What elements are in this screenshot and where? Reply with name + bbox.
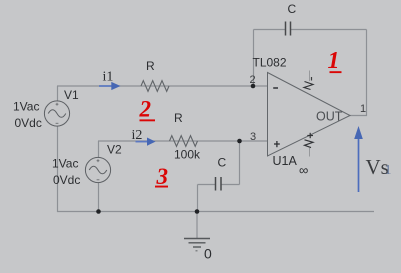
label TL082: [253, 56, 287, 70]
op-amp inverting input minus sign: [273, 87, 278, 89]
op-amp U1A triangle: [268, 73, 351, 157]
label C (feedback capacitor): [288, 2, 297, 16]
node label 2 (red): [139, 97, 156, 122]
svg-text:i2: i2: [132, 128, 143, 143]
svg-text:V2: V2: [107, 143, 122, 157]
junction node V2 bottom on ground rail: [96, 209, 101, 214]
value label 100k: [174, 148, 201, 162]
resistor R (top): [141, 81, 169, 92]
capacitor C1 (feedback) plates: [286, 22, 291, 36]
wire V2 bottom lead: [98, 183, 100, 212]
value label 1Vac (V1): [13, 100, 39, 114]
svg-text:OUT: OUT: [316, 110, 343, 124]
op-amp V- power pin: [305, 133, 314, 157]
current arrow i1: [99, 82, 121, 90]
pin number 3: [250, 131, 256, 143]
svg-text:R: R: [174, 111, 183, 125]
pin number 2: [250, 74, 256, 86]
wire feedback top right segment: [291, 29, 367, 31]
resistor R 100k (bottom): [170, 136, 198, 147]
svg-text:C: C: [218, 156, 227, 170]
wire C2 riser from pin 3 node: [239, 141, 241, 185]
current arrow i2: [136, 138, 156, 146]
value label 0Vdc (V1): [15, 116, 42, 130]
svg-text:1: 1: [328, 48, 340, 74]
label C (bottom capacitor): [218, 156, 227, 170]
svg-text:3: 3: [250, 131, 256, 143]
label OUT: [316, 110, 343, 124]
label i1: [103, 70, 114, 85]
svg-text:2: 2: [139, 97, 152, 122]
svg-text:∞: ∞: [299, 163, 308, 178]
label Vs1: [366, 155, 392, 179]
svg-text:1Vac: 1Vac: [13, 100, 39, 114]
node label 1 (red): [328, 48, 342, 74]
svg-text:100k: 100k: [174, 148, 201, 162]
svg-text:1: 1: [360, 103, 366, 115]
svg-text:V1: V1: [64, 88, 79, 102]
wire V2 top lead: [98, 141, 100, 158]
svg-text:1: 1: [385, 163, 392, 178]
svg-text:U1A: U1A: [273, 154, 298, 168]
pin number 1: [360, 103, 366, 115]
wire C2 left drop to ground rail: [197, 185, 199, 212]
wire C2 left lead: [198, 184, 216, 186]
wire top rail V1 to op-amp pin 2: [57, 85, 268, 87]
wire V1 bottom lead: [57, 127, 59, 213]
wire C2 right lead: [222, 184, 240, 186]
output voltage arrow Vs1: [354, 126, 363, 192]
svg-text:3: 3: [156, 164, 169, 189]
svg-text:C: C: [288, 2, 297, 16]
svg-text:i1: i1: [103, 70, 114, 85]
label R (bottom resistor): [174, 111, 183, 125]
ground net label 0: [204, 246, 212, 262]
label U1A: [273, 154, 298, 168]
ground symbol: [184, 239, 210, 251]
wire V1 top lead: [57, 86, 59, 102]
label V1: [64, 88, 79, 102]
junction node at pin 2: [251, 84, 256, 89]
value label 0Vdc (V2): [53, 173, 80, 187]
svg-text:R: R: [146, 59, 155, 73]
op-amp non-inverting input plus sign: [274, 141, 280, 147]
wire ground stem: [196, 212, 198, 239]
wire op-amp output: [349, 115, 367, 117]
wire feedback right vertical: [366, 30, 368, 117]
label i2: [132, 128, 143, 143]
node label 3 (red): [155, 164, 168, 189]
svg-text:0Vdc: 0Vdc: [15, 116, 42, 130]
label R (top resistor): [146, 59, 155, 73]
source V2: [85, 157, 110, 182]
wire bottom ground rail: [57, 211, 374, 213]
wire feedback top left segment: [254, 29, 286, 31]
label V2: [107, 143, 122, 157]
svg-text:0Vdc: 0Vdc: [53, 173, 80, 187]
source V1: [44, 101, 69, 126]
wire feedback left vertical: [253, 30, 255, 87]
svg-text:TL082: TL082: [253, 56, 287, 70]
value label 1Vac (V2): [52, 157, 78, 171]
label infinity gain: [299, 163, 308, 178]
junction node at pin 3: [237, 139, 242, 144]
wire i2 rail V2 to op-amp pin 3: [98, 140, 268, 142]
op-amp V+ power pin: [304, 71, 313, 90]
svg-text:1Vac: 1Vac: [52, 157, 78, 171]
svg-text:0: 0: [204, 246, 212, 262]
junction node ground on ground rail: [195, 209, 200, 214]
capacitor C2 (bottom) plates: [216, 177, 222, 191]
